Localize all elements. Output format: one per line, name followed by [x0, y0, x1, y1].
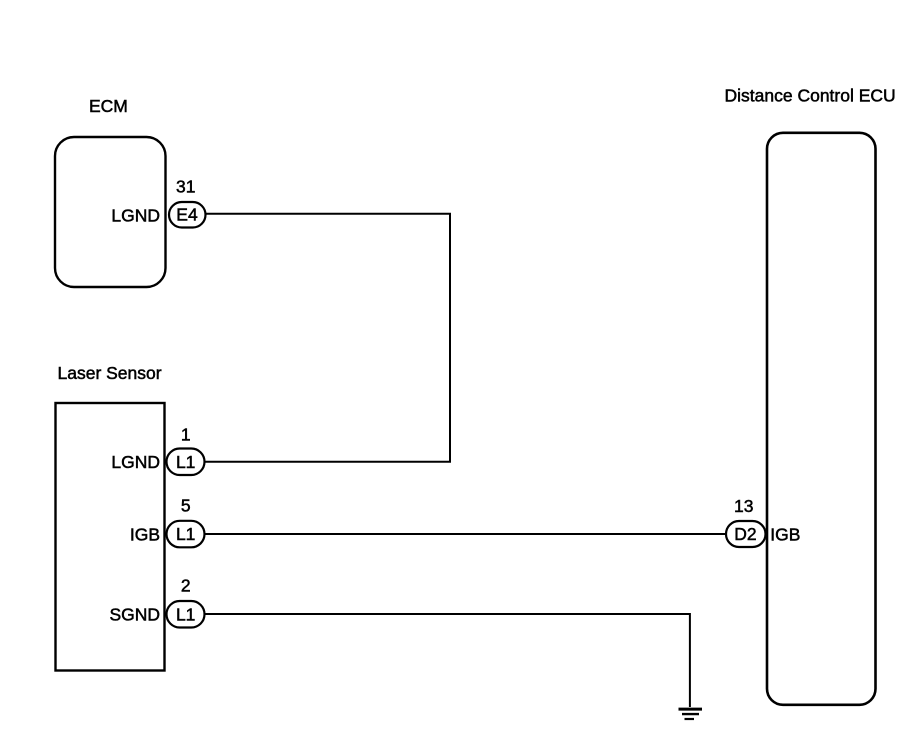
pin L1 (pin 2)	[167, 601, 205, 628]
svg-text:Laser Sensor: Laser Sensor	[58, 363, 162, 383]
svg-text:E4: E4	[176, 205, 198, 225]
pin L1 (pin 5)	[167, 521, 205, 548]
svg-text:LGND: LGND	[111, 206, 160, 226]
svg-text:LGND: LGND	[111, 452, 160, 472]
svg-text:13: 13	[734, 496, 753, 516]
svg-text:5: 5	[181, 496, 191, 516]
svg-text:31: 31	[176, 177, 195, 197]
ECM box	[55, 137, 166, 287]
Distance Control ECU box	[767, 133, 876, 705]
svg-text:1: 1	[181, 425, 191, 445]
svg-text:L1: L1	[176, 524, 195, 544]
svg-text:SGND: SGND	[109, 605, 160, 625]
wire E4 to L1 (LGND net)	[205, 214, 450, 462]
svg-text:D2: D2	[734, 524, 756, 544]
svg-text:ECM: ECM	[89, 96, 128, 116]
svg-text:2: 2	[181, 576, 191, 596]
svg-text:Distance Control ECU: Distance Control ECU	[725, 86, 896, 106]
pin E4	[169, 202, 206, 228]
svg-text:L1: L1	[176, 452, 195, 472]
svg-text:IGB: IGB	[130, 524, 160, 544]
wire SGND L1 to ground	[205, 614, 690, 707]
svg-text:IGB: IGB	[770, 524, 800, 544]
ground	[679, 709, 703, 719]
pin L1 (pin 1)	[167, 449, 205, 476]
pin D2	[726, 521, 766, 547]
wire IGB L1 to D2	[205, 533, 726, 535]
Laser Sensor box	[56, 403, 165, 671]
svg-text:L1: L1	[176, 604, 195, 624]
